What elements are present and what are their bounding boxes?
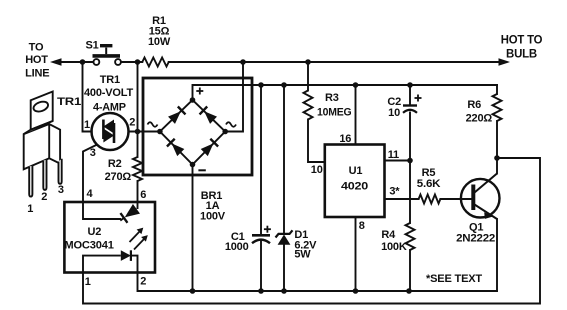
node triac MT2 / R2 / bridge AC1 [135, 129, 141, 135]
wire ground rail [138, 273, 498, 292]
wire hot line left segment [56, 61, 94, 63]
svg-text:100V: 100V [200, 211, 226, 223]
resistor R5 [419, 195, 441, 204]
wire triac MT1 riser [83, 62, 92, 132]
resistor R1 [142, 58, 168, 67]
bridge AC tilde right [226, 122, 236, 127]
svg-text:10MEG: 10MEG [317, 107, 352, 119]
transistor Q1 [461, 174, 500, 220]
wire R2 bottom lead to U2 pin6 [137, 181, 139, 202]
wire bridge plus output to rail [193, 85, 498, 100]
triac TR1 symbol [92, 113, 129, 150]
label C1 value [225, 231, 249, 253]
node bridge top [190, 97, 196, 103]
node ground R4 [406, 288, 412, 294]
svg-text:3: 3 [58, 184, 64, 196]
bridge minus sign [198, 169, 205, 171]
svg-text:TR1: TR1 [100, 74, 120, 86]
wire S1 right to R1 [121, 61, 142, 63]
led U2 emitter diode [121, 250, 131, 261]
optocoupler U2 box [64, 202, 155, 273]
svg-text:10: 10 [388, 107, 400, 119]
arrow hot to bulb [499, 58, 511, 65]
svg-text:4020: 4020 [341, 181, 368, 193]
svg-text:2N2222: 2N2222 [456, 233, 495, 245]
node D1 top [281, 82, 287, 88]
arrow to hot line [50, 58, 62, 65]
label R1 value [148, 15, 171, 48]
svg-text:10W: 10W [148, 36, 171, 48]
diode bridge top-right [200, 107, 218, 125]
wire Q1 emitter down to ground rail [496, 219, 498, 291]
svg-text:U1: U1 [349, 165, 363, 177]
node hot line to R3 [305, 59, 311, 65]
svg-text:MOC3041: MOC3041 [64, 240, 113, 252]
node bridge right [222, 129, 228, 135]
svg-text:TO: TO [29, 42, 44, 54]
label R4 value [381, 229, 407, 253]
text TO HOT LINE [25, 42, 49, 80]
svg-text:270Ω: 270Ω [105, 171, 132, 183]
wire R5 to Q1 base [440, 198, 471, 200]
node U1 pin11 / C2 / R4 [407, 158, 413, 164]
wire triac gate to U2 pin4 [83, 145, 97, 202]
resistor R2 [133, 157, 142, 181]
svg-text:8: 8 [359, 220, 365, 232]
svg-text:1: 1 [85, 276, 91, 288]
capacitor C2 [403, 95, 422, 113]
wire R3 top lead from hot line [307, 62, 309, 91]
package pins 1 2 3 [27, 184, 64, 215]
node hot/S1/TR1 junction [80, 59, 86, 65]
node ground C1 [258, 288, 264, 294]
resistor R3 [304, 91, 313, 120]
bridge AC tilde left [148, 122, 158, 127]
label R2 value [105, 158, 132, 183]
diode U2 detector [117, 204, 140, 225]
svg-text:100K: 100K [381, 241, 407, 253]
wire U2 led internal left [83, 256, 121, 273]
wire R1 right to bulb arrow [169, 61, 501, 63]
label C2 value [387, 96, 401, 119]
label BR1 value [200, 190, 226, 223]
wire S1 junction down to triac MT2 node [137, 62, 139, 132]
wire D1 top lead [283, 85, 285, 234]
wire bridge minus down to ground rail [192, 165, 194, 292]
svg-text:*SEE TEXT: *SEE TEXT [426, 273, 482, 285]
svg-text:LINE: LINE [25, 68, 49, 80]
wire U2 pin6 internal [137, 202, 139, 209]
node hot line to bridge AC2 [240, 59, 246, 65]
switch S1 [93, 46, 121, 65]
wire U2 pin4 internal [83, 202, 121, 219]
node bridge left [157, 129, 163, 135]
diode bridge bottom-right [200, 139, 218, 157]
wire U1 pin11 to C2 line [385, 160, 411, 162]
svg-text:2: 2 [140, 276, 146, 288]
svg-text:R4: R4 [381, 229, 396, 241]
node ground U1 pin8 [353, 288, 359, 294]
svg-text:R6: R6 [467, 99, 481, 111]
node ground D1 [281, 288, 287, 294]
wire Q1 collector riser [496, 158, 498, 174]
node ground bridge minus [190, 288, 196, 294]
led emission arrows [130, 231, 146, 250]
svg-text:1: 1 [84, 119, 90, 131]
wire R2 top lead [137, 132, 139, 158]
wire C1 top lead [260, 85, 262, 235]
diode bridge bottom-left [167, 139, 185, 157]
node bridge bottom [190, 162, 196, 168]
bridge rectifier BR1 box [143, 78, 252, 175]
svg-text:U2: U2 [88, 226, 102, 238]
svg-text:2: 2 [41, 191, 47, 203]
svg-text:3: 3 [90, 147, 96, 159]
label R5 value [417, 167, 441, 190]
svg-text:1000: 1000 [225, 241, 249, 253]
wire R6 top lead [496, 85, 498, 94]
svg-text:5.6K: 5.6K [417, 178, 441, 190]
wire C1 bottom lead [260, 241, 262, 292]
svg-text:S1: S1 [86, 40, 99, 52]
capacitor C1 [252, 226, 271, 244]
resistor R6 [493, 94, 502, 121]
zener diode D1 [276, 230, 293, 245]
svg-text:3*: 3* [389, 186, 400, 198]
TR1 package drawing [24, 92, 62, 197]
bridge diamond wires [160, 100, 225, 165]
svg-text:R3: R3 [325, 92, 339, 104]
svg-text:6: 6 [140, 189, 146, 201]
wire C2 top lead [409, 85, 411, 106]
label D1 value [294, 229, 317, 261]
svg-text:5W: 5W [294, 249, 311, 261]
wire bridge AC2 to hot line [225, 62, 243, 132]
svg-text:HOT: HOT [25, 54, 48, 66]
wire D1 bottom lead [283, 245, 285, 291]
svg-text:400-VOLT: 400-VOLT [84, 87, 133, 99]
wire R6 bottom lead [496, 121, 498, 158]
wire U1 pin8 down to ground rail [355, 217, 357, 291]
label TR1 triac [84, 74, 133, 114]
resistor R4 [406, 223, 415, 250]
node C2 top [407, 82, 413, 88]
wire triac MT2 to bridge AC1 [129, 131, 160, 133]
label Q1 2N2222 [456, 222, 495, 245]
wire R4 bottom lead [409, 250, 411, 291]
svg-text:R2: R2 [108, 158, 122, 170]
svg-text:HOT TO: HOT TO [501, 33, 543, 47]
node C1 top [258, 82, 264, 88]
text HOT TO BULB [501, 33, 543, 61]
svg-text:11: 11 [388, 149, 399, 161]
node R6 / Q1 collector / feedback [494, 155, 500, 161]
svg-text:4-AMP: 4-AMP [93, 102, 126, 114]
wire C2 lower lead through pin3 crossing to R4 [409, 113, 411, 224]
label R3 value [317, 92, 352, 119]
node U1 pin16 supply [353, 82, 359, 88]
node S1/R1/triac-MT2 junction [135, 59, 141, 65]
counter U1 box [325, 145, 385, 218]
wire U2 led internal right [131, 256, 138, 273]
wire R3 bottom to U1 pin10 [308, 120, 325, 163]
wire U1 pin16 riser [355, 85, 357, 145]
bridge plus sign [196, 88, 203, 95]
svg-text:1: 1 [27, 203, 33, 215]
wire feedback loop right side [83, 158, 540, 304]
svg-text:BULB: BULB [506, 47, 538, 61]
label R6 value [466, 99, 493, 125]
label U1 4020 [341, 165, 368, 193]
svg-text:16: 16 [339, 133, 351, 145]
svg-text:2: 2 [129, 117, 135, 129]
wire U1 pin3 to R5 [385, 198, 419, 200]
svg-text:220Ω: 220Ω [466, 113, 493, 125]
diode bridge top-left [168, 107, 186, 125]
svg-text:10: 10 [311, 164, 323, 176]
svg-text:TR1: TR1 [57, 96, 81, 108]
